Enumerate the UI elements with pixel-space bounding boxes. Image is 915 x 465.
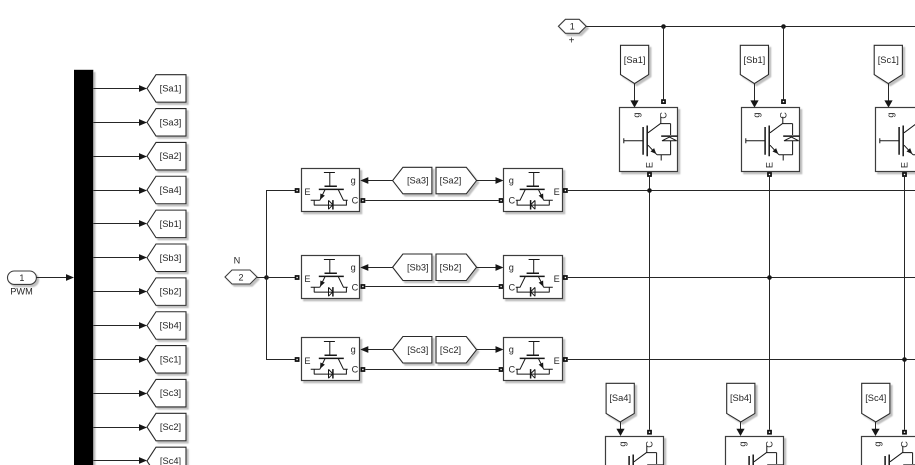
wire demux to goto [Sc2] <box>93 424 147 431</box>
wire demux to goto [Sb4] <box>93 322 147 329</box>
svg-text:C: C <box>900 441 910 448</box>
svg-text:[Sc3]: [Sc3] <box>407 345 428 355</box>
svg-text:[Sa4]: [Sa4] <box>160 185 182 195</box>
wire gate tag to Sc1 <box>884 84 892 108</box>
svg-text:1: 1 <box>570 22 575 32</box>
svg-text:[Sb3]: [Sb3] <box>160 253 182 263</box>
wire gate tag to Sc4 <box>871 422 879 436</box>
svg-text:E: E <box>304 274 310 284</box>
wire phase Sc output <box>568 359 915 361</box>
svg-text:[Sa3]: [Sa3] <box>160 117 182 127</box>
goto tag [Sb1] <box>147 210 186 238</box>
port square C Sb3 <box>361 284 366 289</box>
wire demux to goto [Sc4] <box>93 457 147 464</box>
svg-text:E: E <box>304 187 310 197</box>
wire N stub row Sa <box>267 190 295 192</box>
svg-text:g: g <box>509 176 514 186</box>
from tag [Sa4] <box>606 383 634 422</box>
wire demux to goto [Sb3] <box>93 254 147 261</box>
wire demux to goto [Sc1] <box>93 356 147 363</box>
svg-text:E: E <box>899 162 909 168</box>
svg-text:N: N <box>234 256 241 266</box>
port square C Sa1 <box>661 99 666 104</box>
goto tag [Sc3] <box>147 379 186 407</box>
svg-text:g: g <box>351 263 356 273</box>
IGBT block Sa4 (lower) <box>606 437 664 465</box>
from tag [Sc3] <box>393 337 432 364</box>
svg-text:E: E <box>554 356 560 366</box>
wire demux to goto [Sc3] <box>93 390 147 397</box>
IGBT block Sb2 (lower-right) <box>504 256 563 299</box>
svg-text:g: g <box>632 112 642 117</box>
IGBT block Sa2 (lower-right) <box>504 169 563 212</box>
IGBT block Sc3 (lower-left) <box>302 338 360 381</box>
svg-text:[Sc2]: [Sc2] <box>440 345 461 355</box>
goto tag [Sa1] <box>147 75 186 103</box>
wire demux to goto [Sa3] <box>93 119 147 126</box>
goto tag [Sc1] <box>147 346 186 374</box>
port 2 N <box>225 256 257 285</box>
demux <box>74 70 93 465</box>
from tag [Sb2] <box>436 254 477 281</box>
wire gate from tag to Sa2 <box>477 177 504 184</box>
svg-text:[Sb2]: [Sb2] <box>440 262 462 272</box>
port square C Sa4 <box>647 430 652 435</box>
svg-text:[Sb4]: [Sb4] <box>160 320 182 330</box>
from tag [Sc4] <box>862 383 890 422</box>
svg-text:[Sc4]: [Sc4] <box>160 456 181 465</box>
port square E Sb3 <box>295 275 300 280</box>
IGBT block Sa1 (upper) <box>620 108 678 172</box>
wire phase A vertical <box>649 177 651 430</box>
svg-text:g: g <box>618 441 628 446</box>
wire gate tag to Sa1 <box>630 84 638 108</box>
svg-text:[Sa1]: [Sa1] <box>160 83 182 93</box>
svg-text:[Sc2]: [Sc2] <box>160 422 181 432</box>
port square C Sb2 <box>499 284 504 289</box>
goto tag [Sa4] <box>147 176 186 204</box>
IGBT block Sb4 (lower) <box>726 437 784 465</box>
svg-text:g: g <box>738 441 748 446</box>
svg-text:[Sa3]: [Sa3] <box>407 176 429 186</box>
svg-text:E: E <box>554 274 560 284</box>
node N junction <box>264 275 269 280</box>
IGBT block Sb1 (upper) <box>742 108 800 172</box>
svg-text:+: + <box>569 35 575 46</box>
from tag [Sb3] <box>393 254 432 281</box>
wire gate tag to Sb4 <box>736 422 744 436</box>
port square C Sa2 <box>499 198 504 203</box>
svg-text:[Sa2]: [Sa2] <box>440 176 462 186</box>
node bus to Sb1 <box>781 24 786 29</box>
svg-text:C: C <box>659 112 669 119</box>
wire DC+ bus <box>586 26 915 28</box>
port 1 + <box>558 19 586 46</box>
inport 1 PWM <box>8 271 37 297</box>
wire demux to goto [Sb1] <box>93 220 147 227</box>
IGBT block Sc2 (lower-right) <box>504 338 563 381</box>
port square E Sc3 <box>295 357 300 362</box>
svg-text:[Sb1]: [Sb1] <box>744 55 766 65</box>
port square C Sc2 <box>499 367 504 372</box>
node bus to Sa1 <box>661 24 666 29</box>
port square E Sa2 <box>563 188 568 193</box>
wire bus to C Sb1 <box>783 26 785 99</box>
svg-text:C: C <box>765 441 775 448</box>
svg-text:g: g <box>351 176 356 186</box>
svg-text:1: 1 <box>19 273 24 283</box>
wire bus to C Sa1 <box>663 26 665 99</box>
svg-text:C: C <box>508 196 515 206</box>
svg-text:g: g <box>752 112 762 117</box>
IGBT block Sb3 (lower-left) <box>302 256 360 299</box>
port square E Sa3 <box>295 188 300 193</box>
svg-text:[Sc4]: [Sc4] <box>865 393 886 403</box>
wire N stub row Sb <box>267 277 295 279</box>
wire gate from tag to Sb2 <box>477 264 504 271</box>
svg-text:C: C <box>645 441 655 448</box>
node phase B <box>767 275 772 280</box>
wire demux to goto [Sb2] <box>93 288 147 295</box>
port square C Sc4 <box>902 430 907 435</box>
port square E Sb2 <box>563 275 568 280</box>
wire phase Sb output <box>568 277 915 279</box>
from tag [Sc1] <box>874 45 902 83</box>
wire phase Sa output <box>568 190 915 192</box>
svg-text:2: 2 <box>238 272 243 282</box>
svg-text:[Sc1]: [Sc1] <box>878 55 899 65</box>
wire gate tag to Sb1 <box>750 84 758 108</box>
svg-text:g: g <box>873 441 883 446</box>
goto tag [Sb2] <box>147 278 186 306</box>
wire N vertical <box>266 190 268 360</box>
svg-text:PWM: PWM <box>10 287 32 297</box>
port square C Sb1 <box>781 99 786 104</box>
svg-text:C: C <box>352 365 359 375</box>
svg-text:[Sc3]: [Sc3] <box>160 388 181 398</box>
port square E Sb1 <box>767 172 772 177</box>
svg-text:g: g <box>509 263 514 273</box>
svg-text:[Sa2]: [Sa2] <box>160 151 182 161</box>
node phase A <box>647 188 652 193</box>
svg-text:[Sb3]: [Sb3] <box>407 262 429 272</box>
wire C Sb3 to C Sb2 <box>365 286 498 288</box>
wire gate from tag to Sc2 <box>477 346 504 353</box>
from tag [Sa1] <box>621 45 649 83</box>
goto tag [Sb4] <box>147 312 186 340</box>
svg-text:E: E <box>304 356 310 366</box>
wire demux to goto [Sa1] <box>93 85 147 92</box>
svg-text:E: E <box>554 187 560 197</box>
goto tag [Sa3] <box>147 109 186 137</box>
wire port2 to junction <box>257 277 267 279</box>
svg-text:[Sa1]: [Sa1] <box>624 55 646 65</box>
from tag [Sb1] <box>740 45 768 83</box>
IGBT block Sc4 (lower) <box>862 437 915 465</box>
wire gate from tag to Sc3 <box>360 346 392 353</box>
svg-text:C: C <box>352 196 359 206</box>
goto tag [Sa2] <box>147 142 186 170</box>
port square E Sc1 <box>902 172 907 177</box>
from tag [Sa2] <box>436 167 477 194</box>
svg-text:[Sa4]: [Sa4] <box>609 393 631 403</box>
svg-text:[Sb4]: [Sb4] <box>730 393 752 403</box>
from tag [Sc2] <box>436 337 477 364</box>
goto tag [Sc2] <box>147 413 186 441</box>
svg-text:C: C <box>508 365 515 375</box>
goto tag [Sb3] <box>147 244 186 272</box>
svg-text:E: E <box>644 162 654 168</box>
from tag [Sa3] <box>393 167 432 194</box>
wire PWM to demux <box>36 274 74 281</box>
wire C Sa3 to C Sa2 <box>365 200 498 202</box>
wire gate tag to Sa4 <box>616 422 624 436</box>
svg-text:[Sb1]: [Sb1] <box>160 219 182 229</box>
port square E Sa1 <box>647 172 652 177</box>
node phase C <box>902 357 907 362</box>
wire demux to goto [Sa4] <box>93 187 147 194</box>
wire gate from tag to Sa3 <box>360 177 392 184</box>
svg-text:g: g <box>886 112 896 117</box>
wire C Sc3 to C Sc2 <box>365 369 498 371</box>
IGBT block Sa3 (lower-left) <box>302 169 360 212</box>
svg-text:g: g <box>351 345 356 355</box>
wire demux to goto [Sa2] <box>93 153 147 160</box>
wire phase B vertical <box>769 177 771 430</box>
svg-text:E: E <box>764 162 774 168</box>
svg-text:g: g <box>509 345 514 355</box>
port square C Sb4 <box>767 430 772 435</box>
wire phase C vertical <box>904 177 906 430</box>
goto tag [Sc4] <box>147 447 186 465</box>
svg-text:C: C <box>352 283 359 293</box>
svg-text:[Sb2]: [Sb2] <box>160 287 182 297</box>
port square C Sa3 <box>361 198 366 203</box>
from tag [Sb4] <box>727 383 755 422</box>
port square E Sc2 <box>563 357 568 362</box>
svg-text:C: C <box>508 283 515 293</box>
wire N stub row Sc <box>267 359 295 361</box>
svg-text:[Sc1]: [Sc1] <box>160 354 181 364</box>
wire gate from tag to Sb3 <box>360 264 392 271</box>
port square C Sc3 <box>361 367 366 372</box>
IGBT block Sc1 (upper) <box>876 108 915 172</box>
svg-text:C: C <box>779 112 789 119</box>
